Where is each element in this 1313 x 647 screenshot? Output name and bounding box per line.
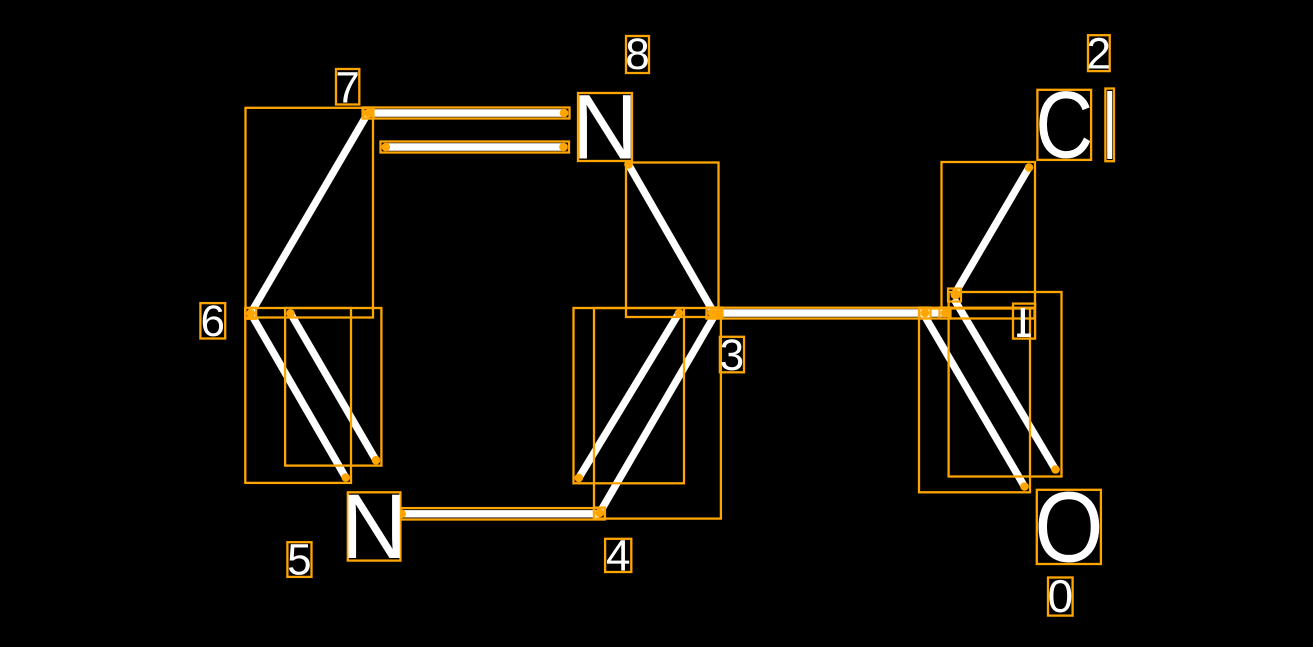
svg-text:C: C	[1035, 72, 1093, 178]
svg-text:N: N	[572, 77, 638, 179]
svg-text:6: 6	[201, 297, 225, 346]
svg-text:0: 0	[1048, 570, 1074, 622]
svg-text:O: O	[1034, 472, 1103, 584]
svg-text:5: 5	[287, 536, 311, 585]
svg-text:8: 8	[625, 30, 649, 79]
svg-text:2: 2	[1087, 30, 1111, 79]
svg-text:7: 7	[335, 63, 359, 112]
svg-text:3: 3	[720, 331, 744, 380]
svg-text:N: N	[341, 476, 407, 578]
svg-text:4: 4	[606, 532, 630, 581]
